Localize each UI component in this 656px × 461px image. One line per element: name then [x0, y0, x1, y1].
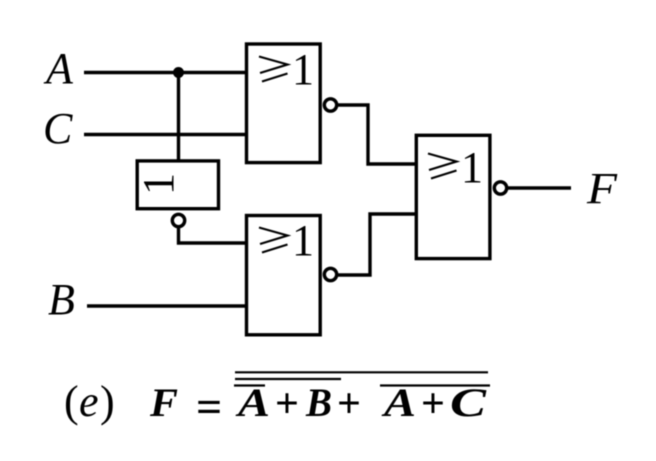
svg-text:1: 1 — [461, 143, 483, 192]
svg-text:F: F — [586, 164, 618, 213]
svg-text:=: = — [196, 381, 222, 432]
svg-text:+: + — [337, 381, 361, 427]
svg-text:1: 1 — [292, 45, 314, 94]
svg-text:A: A — [234, 380, 270, 425]
svg-text:+: + — [421, 381, 445, 427]
svg-text:A: A — [43, 44, 74, 93]
svg-text:1: 1 — [134, 173, 183, 195]
svg-text:+: + — [275, 381, 299, 427]
svg-text:C: C — [450, 380, 488, 425]
svg-text:1: 1 — [292, 216, 314, 265]
svg-text:(: ( — [64, 377, 79, 426]
svg-text:e: e — [79, 377, 99, 426]
svg-text:B: B — [48, 275, 75, 324]
svg-text:B: B — [305, 380, 332, 425]
svg-text:A: A — [380, 380, 416, 425]
svg-text:F: F — [149, 380, 178, 425]
svg-text:): ) — [100, 377, 115, 426]
svg-text:C: C — [43, 104, 73, 153]
